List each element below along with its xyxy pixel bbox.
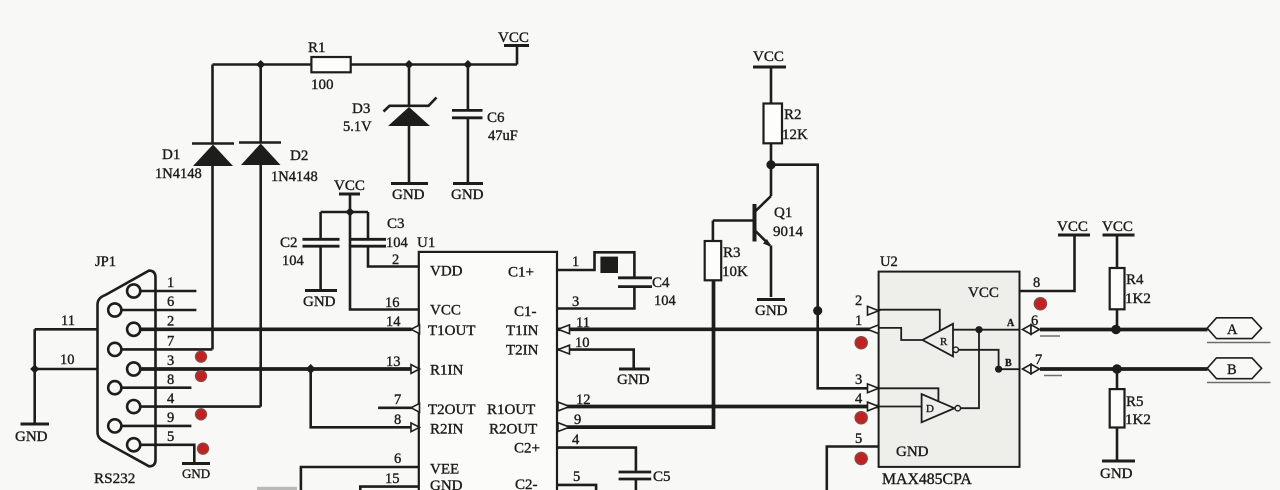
wire JP1 pin1 stub xyxy=(140,275,196,291)
svg-text:8: 8 xyxy=(167,372,174,388)
wire shell down xyxy=(33,329,36,423)
arrow U1 T2OUT xyxy=(411,403,420,412)
U1 pin number labels left xyxy=(385,252,401,487)
wire A internal xyxy=(953,329,1020,331)
svg-text:4: 4 xyxy=(167,391,175,407)
node red pad U2 pin1 xyxy=(855,337,867,349)
pad C4 square xyxy=(600,257,618,273)
svg-text:7: 7 xyxy=(394,392,401,408)
node red pad 8 xyxy=(196,371,207,382)
node A bus xyxy=(1111,325,1121,335)
svg-text:C4: C4 xyxy=(652,275,670,291)
capacitor C3 xyxy=(351,216,409,251)
svg-text:T2OUT: T2OUT xyxy=(428,402,476,418)
svg-text:C2: C2 xyxy=(280,235,298,251)
node B bus xyxy=(1112,364,1122,374)
wire R1IN to R2IN xyxy=(311,369,411,427)
VCC (U2 pin8) xyxy=(1057,219,1090,235)
node red pad U2 pin5 xyxy=(855,453,867,465)
svg-text:T1OUT: T1OUT xyxy=(428,323,476,339)
arrow U1 R2OUT xyxy=(558,423,570,432)
svg-text:JP1: JP1 xyxy=(95,254,116,270)
arrow U1 R1OUT xyxy=(558,402,570,411)
svg-text:GND: GND xyxy=(896,444,929,460)
wire B bus xyxy=(1040,367,1208,371)
svg-text:GND: GND xyxy=(755,303,788,319)
wire D1 to DB9 pin7 xyxy=(211,166,214,349)
svg-text:GND: GND xyxy=(617,372,650,388)
svg-text:GND: GND xyxy=(182,466,210,481)
wire U1 C2- down xyxy=(557,485,596,490)
svg-text:R2OUT: R2OUT xyxy=(489,422,537,438)
wire C6 vertical xyxy=(467,65,470,111)
wire JP1 pin2 to U1 T1OUT xyxy=(140,314,411,330)
wire U1 T1IN to U2 RO xyxy=(557,327,879,331)
connector JP1 DB9 xyxy=(94,254,156,487)
U1 left labels xyxy=(428,264,476,490)
svg-text:12K: 12K xyxy=(782,127,808,143)
svg-text:U2: U2 xyxy=(880,254,898,270)
wire JP1 pin5 to ground xyxy=(140,429,194,463)
node Q1 collector xyxy=(766,160,775,169)
svg-text:VCC: VCC xyxy=(968,285,999,301)
wire D2 to DB9 pin4 xyxy=(259,165,262,407)
ground T2IN xyxy=(617,369,650,388)
VCC (top right of R1) xyxy=(498,30,529,65)
wire C5 down xyxy=(635,479,638,490)
svg-text:T1IN: T1IN xyxy=(506,323,539,339)
svg-text:D2: D2 xyxy=(290,148,308,164)
U1 pin number labels right xyxy=(572,254,591,485)
capacitor C5 xyxy=(619,469,671,485)
svg-text:9014: 9014 xyxy=(773,224,804,240)
ground D3 xyxy=(391,184,428,204)
wire VCC to U1 pin16 xyxy=(350,212,419,310)
svg-text:11: 11 xyxy=(61,313,75,329)
wire C2-C3 top xyxy=(321,211,368,214)
wire C6 to ground xyxy=(467,118,470,182)
ground JP1 pin5 xyxy=(182,464,210,482)
resistor R3 xyxy=(705,241,748,280)
wire JP1 pin4 to D2 xyxy=(140,391,260,407)
pad bottom left xyxy=(257,487,297,490)
svg-text:1K2: 1K2 xyxy=(1125,291,1151,307)
arrow U2 pin4 xyxy=(868,402,879,411)
svg-text:100: 100 xyxy=(311,77,334,93)
receiver amp U2 R xyxy=(923,324,954,357)
node D2 top xyxy=(256,60,265,69)
svg-text:VCC: VCC xyxy=(498,30,529,46)
svg-text:5: 5 xyxy=(573,469,580,485)
svg-text:2: 2 xyxy=(392,252,399,268)
svg-text:4: 4 xyxy=(572,432,580,448)
wire JP1 pin8 stub xyxy=(121,372,191,388)
wire C3 lead xyxy=(367,212,370,239)
bubble R input xyxy=(953,347,958,352)
svg-text:2: 2 xyxy=(855,293,862,309)
arrow U1 T1OUT xyxy=(411,325,420,334)
wire C2 to ground xyxy=(319,246,322,289)
svg-text:VEE: VEE xyxy=(430,462,459,478)
svg-text:8: 8 xyxy=(394,412,401,428)
svg-text:1: 1 xyxy=(855,313,862,329)
svg-text:104: 104 xyxy=(386,235,409,251)
node B internal xyxy=(995,366,1002,373)
wire U1 VEE xyxy=(301,467,419,490)
wire U1 T2OUT stub xyxy=(378,406,411,409)
svg-text:B: B xyxy=(1227,362,1237,378)
svg-text:C5: C5 xyxy=(653,469,671,485)
wire JP1 pin7 to D1 xyxy=(121,334,212,350)
transistor Q1 xyxy=(713,196,804,247)
arrow U1 T2IN xyxy=(558,345,570,354)
wire D2 vertical xyxy=(259,65,262,143)
wire U1 GND15 xyxy=(360,487,419,490)
svg-text:8: 8 xyxy=(1033,275,1040,291)
svg-text:2: 2 xyxy=(167,314,174,330)
arrow U1 R2IN xyxy=(411,423,420,432)
svg-text:1K2: 1K2 xyxy=(1125,412,1151,428)
svg-text:C2+: C2+ xyxy=(514,441,540,457)
svg-text:T2IN: T2IN xyxy=(506,343,539,359)
capacitor C4 xyxy=(618,275,677,309)
IC U1 xyxy=(417,235,557,490)
ground Q1 xyxy=(755,300,788,320)
resistor R1 xyxy=(308,40,351,93)
wire U1 R1OUT to U2 DI xyxy=(557,405,879,409)
IC U2 xyxy=(879,254,1020,488)
svg-text:RS232: RS232 xyxy=(94,470,135,487)
svg-text:5: 5 xyxy=(167,429,174,445)
svg-text:R2IN: R2IN xyxy=(430,422,464,438)
svg-text:VCC: VCC xyxy=(430,303,461,319)
wire DE enable xyxy=(879,388,939,401)
wire JP1 pin6 stub xyxy=(121,294,196,310)
svg-text:1: 1 xyxy=(167,275,174,291)
svg-text:Q1: Q1 xyxy=(774,205,792,221)
svg-text:5.1V: 5.1V xyxy=(343,119,372,135)
node VCC C2 C3 xyxy=(345,208,354,217)
node red pad 9 xyxy=(196,409,207,420)
wire U1 C2+ to C5 xyxy=(557,448,636,471)
wire enable to pin3 xyxy=(818,311,867,389)
VCC (above C2 C3) xyxy=(334,178,365,212)
wire R4 to A xyxy=(1116,309,1119,329)
svg-text:7: 7 xyxy=(167,334,174,350)
port B xyxy=(1207,358,1271,383)
U1 right labels xyxy=(487,265,540,490)
svg-text:R3: R3 xyxy=(723,245,741,261)
wire B to R5 xyxy=(1116,369,1119,389)
svg-text:GND: GND xyxy=(451,187,484,203)
wire A bus xyxy=(1040,328,1208,332)
wire R2 to Q1 xyxy=(770,143,773,196)
svg-text:VCC: VCC xyxy=(334,178,365,194)
svg-text:U1: U1 xyxy=(417,235,435,251)
svg-text:104: 104 xyxy=(282,253,305,269)
svg-text:16: 16 xyxy=(385,295,400,311)
arrow U1 T1IN xyxy=(558,325,570,334)
node A internal xyxy=(975,326,982,333)
ground shell xyxy=(15,424,49,445)
wire U2 pin5 gnd xyxy=(827,447,879,490)
svg-text:A: A xyxy=(1007,318,1015,329)
ground C2 xyxy=(303,291,337,311)
wire R5 to ground xyxy=(1116,428,1119,460)
wire collector to U2 enables xyxy=(771,165,818,311)
svg-text:GND: GND xyxy=(15,429,48,445)
wire U2 RE enable xyxy=(879,310,940,331)
zener diode D3 xyxy=(343,98,437,136)
svg-text:1N4148: 1N4148 xyxy=(271,169,318,185)
diode D2 xyxy=(239,143,318,186)
svg-text:D1: D1 xyxy=(162,147,180,163)
svg-text:GND: GND xyxy=(430,478,463,490)
svg-text:1N4148: 1N4148 xyxy=(155,166,202,182)
wire U1 C1+ to C4 xyxy=(557,252,634,276)
terminal marker A xyxy=(1023,313,1061,336)
terminal marker B xyxy=(1023,352,1063,376)
wire U1 R2OUT to R3 xyxy=(557,280,714,427)
svg-text:D3: D3 xyxy=(352,101,370,117)
svg-text:VCC: VCC xyxy=(1102,219,1133,235)
svg-text:GND: GND xyxy=(303,294,336,310)
svg-text:C2-: C2- xyxy=(515,477,538,490)
arrow U2 pin3 xyxy=(868,384,879,393)
svg-text:6: 6 xyxy=(167,294,174,310)
svg-text:9: 9 xyxy=(167,410,174,426)
svg-text:R1IN: R1IN xyxy=(430,363,464,379)
resistor R5 xyxy=(1110,389,1151,428)
svg-text:C3: C3 xyxy=(387,216,405,232)
svg-text:GND: GND xyxy=(1100,466,1133,482)
wire JP1 pin9 stub xyxy=(121,410,191,426)
wire D3 vertical xyxy=(408,65,411,107)
node red pad 5 xyxy=(198,443,209,454)
svg-text:A: A xyxy=(1227,322,1238,338)
svg-text:GND: GND xyxy=(392,187,425,203)
svg-text:C1-: C1- xyxy=(514,304,537,320)
capacitor C2 xyxy=(280,235,340,269)
VCC (above R2) xyxy=(753,49,786,104)
node U2 enable junction xyxy=(813,306,822,315)
wire D1 vertical xyxy=(211,65,214,143)
resistor R4 xyxy=(1110,268,1151,309)
wire JP1 pin3 to U1 R1IN xyxy=(140,353,410,369)
svg-text:R: R xyxy=(940,336,948,348)
svg-text:4: 4 xyxy=(855,391,863,407)
wire C2 lead xyxy=(319,212,322,239)
svg-text:B: B xyxy=(1005,358,1012,369)
arrow U2 pin2 xyxy=(868,306,879,315)
svg-text:1: 1 xyxy=(572,254,579,270)
svg-text:6: 6 xyxy=(394,451,401,467)
svg-text:15: 15 xyxy=(385,471,400,487)
wire C3 to U1 pin2 xyxy=(368,246,419,266)
resistor R2 xyxy=(764,104,809,144)
bubble D output xyxy=(955,406,960,411)
wire RO to pin1 xyxy=(879,328,923,340)
wire shell pin10 xyxy=(35,352,98,369)
svg-text:3: 3 xyxy=(855,372,862,388)
capacitor C6 xyxy=(452,110,518,144)
wire B internal xyxy=(999,368,1020,370)
svg-text:R2: R2 xyxy=(784,107,802,123)
diode D1 xyxy=(155,144,234,183)
node R1IN junction xyxy=(306,364,316,374)
svg-text:C1+: C1+ xyxy=(508,265,534,281)
wire Q1 emitter to ground xyxy=(770,246,773,298)
svg-text:R5: R5 xyxy=(1126,394,1144,410)
svg-text:VDD: VDD xyxy=(430,264,463,280)
wire U1 T2IN to ground xyxy=(557,350,634,368)
wire D3 to ground xyxy=(408,126,411,182)
ground R5 xyxy=(1100,461,1135,482)
wire R bubble to B xyxy=(959,350,999,369)
wire U2 pin8 to VCC xyxy=(1020,236,1075,291)
node shell junction xyxy=(30,365,39,374)
svg-text:R1: R1 xyxy=(308,40,326,56)
wire shell pin11 xyxy=(35,313,98,329)
svg-text:47uF: 47uF xyxy=(488,128,518,144)
node red pad pin8 xyxy=(1034,298,1046,310)
port A xyxy=(1207,318,1271,343)
svg-text:3: 3 xyxy=(167,353,174,369)
svg-text:10K: 10K xyxy=(722,264,748,280)
wire DI internal xyxy=(879,406,922,408)
node red pad U2 pin4 xyxy=(855,412,867,424)
svg-text:10: 10 xyxy=(60,352,75,368)
svg-text:5: 5 xyxy=(855,431,862,447)
svg-text:MAX485CPA: MAX485CPA xyxy=(882,471,972,488)
wire top rail xyxy=(213,63,518,66)
ground C6 xyxy=(451,184,484,204)
node C6 top xyxy=(463,60,472,69)
svg-text:R1OUT: R1OUT xyxy=(487,402,535,418)
svg-text:R4: R4 xyxy=(1126,272,1144,288)
svg-text:VCC: VCC xyxy=(1057,219,1088,235)
node red pad 7 xyxy=(196,351,207,362)
U2 pin labels left xyxy=(855,293,863,447)
arrow U1 R1IN xyxy=(411,365,420,374)
svg-text:7: 7 xyxy=(1035,352,1042,368)
arrow U2 pin1 xyxy=(868,325,879,334)
wire R3 top xyxy=(712,221,715,242)
svg-text:C6: C6 xyxy=(487,110,505,126)
wire A to driver out xyxy=(961,330,980,409)
node D3 top xyxy=(404,60,413,69)
svg-text:VCC: VCC xyxy=(753,49,784,65)
svg-text:6: 6 xyxy=(1031,313,1038,329)
wire C4 to U1 C1- xyxy=(557,287,634,309)
svg-text:104: 104 xyxy=(654,293,677,309)
driver amp U2 D xyxy=(922,394,955,422)
svg-text:D: D xyxy=(926,403,934,415)
VCC (R4) xyxy=(1102,219,1135,268)
